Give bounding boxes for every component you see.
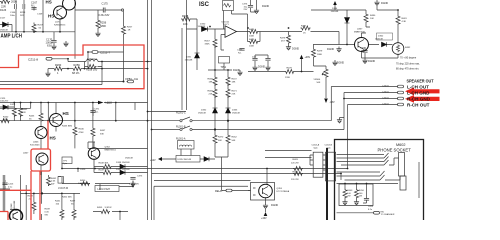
svg-text:1N4148: 1N4148 [375,38,383,40]
svg-text:C371: C371 [94,109,100,111]
svg-text:R403: R403 [347,190,353,192]
svg-text:R473: R473 [249,39,255,41]
svg-text:RL301-C: RL301-C [176,112,186,115]
svg-text:R258 100: R258 100 [86,68,98,72]
svg-text:CZ11-7: CZ11-7 [100,51,110,55]
svg-text:R471: R471 [232,91,238,93]
svg-text:D332: D332 [201,110,207,112]
svg-text:R237: R237 [38,25,44,27]
svg-text:R479: R479 [317,51,323,53]
svg-text:Q357: Q357 [357,29,363,31]
svg-text:1N4148: 1N4148 [0,30,8,32]
svg-text:SPEAKER OUT: SPEAKER OUT [407,78,434,84]
svg-text:CZ304: CZ304 [382,91,389,93]
svg-text:D126: D126 [0,8,7,12]
svg-text:1N4148: 1N4148 [331,11,339,13]
svg-text:C377: C377 [237,50,243,52]
svg-text:220 2W: 220 2W [291,162,299,164]
svg-text:330K: 330K [205,44,211,46]
svg-text:Q348: Q348 [11,203,13,209]
svg-text:RELAY: RELAY [215,190,223,193]
svg-text:L-CH OUT: L-CH OUT [407,85,429,90]
svg-text:R449 3K9: R449 3K9 [99,169,110,171]
svg-text:DGND: DGND [337,62,344,65]
svg-text:L301 0.5uH: L301 0.5uH [98,188,111,191]
svg-text:R-CH GND: R-CH GND [407,97,431,102]
svg-text:33K: 33K [100,133,104,135]
svg-text:1N4148: 1N4148 [198,26,206,28]
svg-text:50K: 50K [317,82,321,84]
svg-text:+46V: +46V [105,101,113,105]
svg-text:18K: 18K [209,82,213,84]
svg-text:PHONE SOCKET: PHONE SOCKET [378,147,412,152]
svg-text:HS: HS [63,111,69,116]
svg-text:220 2W: 220 2W [291,179,299,181]
svg-text:R456: R456 [359,190,365,192]
svg-text:ISC: ISC [199,2,210,8]
svg-text:R472: R472 [232,79,238,81]
svg-text:R467: R467 [205,41,211,43]
svg-text:CZ11-8: CZ11-8 [28,57,38,61]
svg-text:DGND: DGND [271,204,278,207]
svg-text:R-CH OUT: R-CH OUT [407,103,430,108]
svg-text:22K: 22K [209,94,213,96]
svg-text:+46V: +46V [261,217,267,220]
svg-text:R476: R476 [280,38,286,40]
svg-text:C426: C426 [368,206,374,208]
svg-text:DGND: DGND [327,48,334,51]
svg-text:100K: 100K [249,35,255,37]
svg-text:Q346: Q346 [33,142,39,144]
svg-text:470K: 470K [79,132,85,134]
svg-text:1N4148: 1N4148 [232,112,240,114]
svg-text:R480: R480 [370,15,376,17]
svg-text:RL301-B: RL301-B [176,126,186,129]
svg-text:D333: D333 [232,110,238,112]
svg-text:KSC3503: KSC3503 [30,144,40,146]
svg-text:63V: 63V [47,44,52,48]
svg-text:R450: R450 [80,180,86,182]
svg-text:MMBT5551: MMBT5551 [105,149,117,151]
svg-text:22K: 22K [232,94,236,96]
svg-text:0.1u 100V: 0.1u 100V [129,184,140,186]
svg-text:C413: C413 [8,184,14,186]
svg-text:V-OUT-M: V-OUT-M [58,187,68,190]
svg-text:L-CH GND: L-CH GND [407,91,430,96]
svg-text:56K: 56K [232,140,236,142]
svg-text:MMBT5551: MMBT5551 [354,31,366,33]
svg-text:R484: R484 [293,172,299,174]
svg-text:2W: 2W [359,196,362,198]
svg-text:C420: C420 [80,169,86,171]
svg-text:R259: R259 [74,63,81,67]
svg-text:C175: C175 [102,2,109,6]
svg-text:70 + 80 degree: 70 + 80 degree [400,57,417,60]
svg-text:CZ004: CZ004 [382,97,389,99]
svg-text:VR304: VR304 [314,79,321,81]
svg-text:1N4148: 1N4148 [198,112,206,114]
svg-text:N.L: N.L [31,4,36,8]
svg-text:R468: R468 [182,14,189,18]
svg-text:R481: R481 [402,18,408,20]
svg-text:R468: R468 [208,79,214,81]
svg-text:D338 1N4148: D338 1N4148 [116,162,130,164]
svg-text:200u: 200u [11,0,17,4]
svg-text:Q353: Q353 [277,188,283,190]
svg-text:C376: C376 [242,4,248,6]
svg-text:R478: R478 [287,68,293,70]
svg-text:D339 1N4148: D339 1N4148 [116,169,130,171]
svg-text:U301 A: U301 A [222,21,230,24]
svg-text:RL301-A: RL301-A [176,138,186,141]
svg-text:22R: 22R [1,5,6,9]
svg-text:25V: 25V [244,9,248,11]
svg-text:R260: R260 [55,63,62,67]
svg-text:CZ04-B: CZ04-B [325,145,333,147]
svg-text:DGND: DGND [262,5,269,8]
svg-text:100K: 100K [249,46,255,48]
svg-text:4.3K: 4.3K [402,21,407,23]
svg-text:DGND: DGND [292,48,299,51]
svg-text:10/1W FS: 10/1W FS [78,183,88,185]
svg-text:CZ004: CZ004 [382,103,389,105]
svg-text:R437: R437 [70,201,76,203]
svg-text:220K: 220K [285,77,291,79]
svg-text:180K: 180K [317,54,323,56]
svg-text:R447: R447 [100,130,106,132]
svg-text:Q347: Q347 [23,153,29,155]
svg-text:3.3/1W: 3.3/1W [105,207,113,209]
svg-text:22K: 22K [22,112,26,114]
svg-text:R238: R238 [20,12,26,14]
svg-text:0.33u 63V: 0.33u 63V [99,14,110,17]
svg-text:CZ303: CZ303 [382,85,389,87]
svg-text:C373: C373 [137,176,143,178]
svg-text:100u: 100u [10,15,16,17]
svg-text:D324: D324 [10,104,16,106]
svg-text:D335 1N4148: D335 1N4148 [178,159,192,161]
svg-text:TL071: TL071 [223,24,230,26]
svg-text:DGND: DGND [381,2,388,5]
svg-text:Q171: Q171 [55,22,61,24]
svg-text:R439: R439 [45,209,51,211]
svg-text:80 deg: 470 ohm min.: 80 deg: 470 ohm min. [396,68,419,71]
svg-text:TO CHANGER: TO CHANGER [381,213,395,216]
svg-text:R257: R257 [127,27,133,29]
svg-text:R441: R441 [55,201,61,203]
svg-text:DGND: DGND [368,60,375,63]
svg-text:1N4148: 1N4148 [185,60,193,62]
svg-text:C166: C166 [10,12,16,14]
svg-text:R446: R446 [79,129,85,131]
svg-text:D331: D331 [186,57,192,59]
svg-text:2W: 2W [347,196,350,198]
svg-text:HS: HS [48,14,54,19]
svg-text:56K: 56K [218,140,222,142]
svg-text:D334: D334 [332,8,338,10]
svg-text:VPB-L-CH: VPB-L-CH [125,77,138,81]
svg-text:DGND: DGND [258,66,265,69]
svg-text:22K: 22K [3,119,7,121]
svg-text:R475: R475 [249,29,255,31]
svg-text:Q352: Q352 [105,147,111,149]
svg-text:1N4148: 1N4148 [125,158,133,160]
svg-text:D127: D127 [0,18,6,20]
svg-text:R477: R477 [301,26,307,28]
svg-text:R455: R455 [97,207,103,209]
svg-text:R448 36K: R448 36K [99,162,109,164]
svg-text:R469: R469 [208,91,214,93]
svg-text:R470: R470 [218,137,224,139]
svg-text:MN2488: MN2488 [14,200,16,209]
svg-text:680K: 680K [100,24,106,28]
svg-text:R442: R442 [22,109,28,111]
svg-text:68 1%: 68 1% [72,71,80,75]
svg-text:HS: HS [46,0,52,5]
svg-text:TP11: TP11 [221,66,227,69]
svg-text:R483: R483 [293,159,299,161]
svg-text:R256: R256 [100,21,107,25]
svg-text:R443: R443 [29,116,35,118]
svg-text:-18V: -18V [330,101,335,104]
svg-text:R452 36K: R452 36K [62,197,72,199]
svg-text:R445 8M2: R445 8M2 [62,126,73,128]
svg-text:DTC123EKA: DTC123EKA [277,190,290,193]
svg-text:R442: R442 [51,178,57,180]
svg-text:D362: D362 [378,36,384,38]
svg-text:CZ04-A: CZ04-A [312,144,320,147]
svg-text:C169: C169 [37,14,43,16]
svg-text:R\D: R\D [381,211,385,213]
svg-text:+46V: +46V [305,56,311,59]
svg-text:NJW0281G: NJW0281G [54,24,66,26]
svg-text:R440: R440 [3,117,9,119]
svg-text:10K: 10K [183,22,188,26]
svg-text:C421: C421 [360,48,366,50]
svg-text:AMP L/CH: AMP L/CH [1,34,23,40]
svg-text:1R: 1R [128,30,131,32]
svg-text:R452: R452 [232,137,238,139]
svg-text:18K: 18K [232,82,236,84]
svg-text:L102 N.L: L102 N.L [87,57,98,61]
svg-text:HS: HS [50,136,56,141]
svg-text:10K: 10K [370,18,374,20]
svg-text:+12V: +12V [150,159,156,162]
svg-text:100u/5V: 100u/5V [0,101,9,103]
svg-text:DGND: DGND [233,69,240,72]
svg-text:R482: R482 [405,47,411,49]
svg-text:70 deg: 220 ohm max,: 70 deg: 220 ohm max, [396,63,420,66]
